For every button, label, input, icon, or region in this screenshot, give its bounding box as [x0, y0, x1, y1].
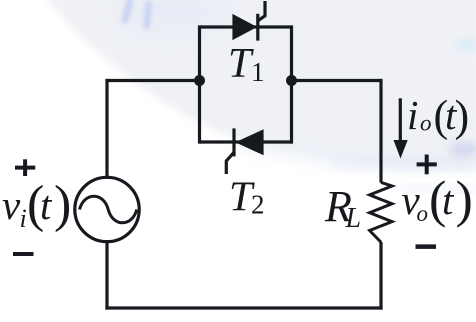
svg-text:t: t [442, 177, 455, 223]
svg-text:t: t [445, 92, 458, 138]
svg-text:): ) [456, 172, 473, 229]
svg-text:): ) [54, 176, 71, 233]
svg-text:i: i [20, 204, 27, 233]
svg-text:): ) [455, 92, 470, 141]
svg-text:i: i [407, 92, 418, 138]
svg-text:1: 1 [251, 57, 265, 87]
svg-text:o: o [417, 201, 429, 226]
svg-text:L: L [345, 203, 362, 234]
svg-text:o: o [420, 111, 432, 136]
svg-text:t: t [40, 182, 53, 228]
svg-text:2: 2 [251, 190, 265, 220]
svg-text:v: v [2, 182, 21, 228]
